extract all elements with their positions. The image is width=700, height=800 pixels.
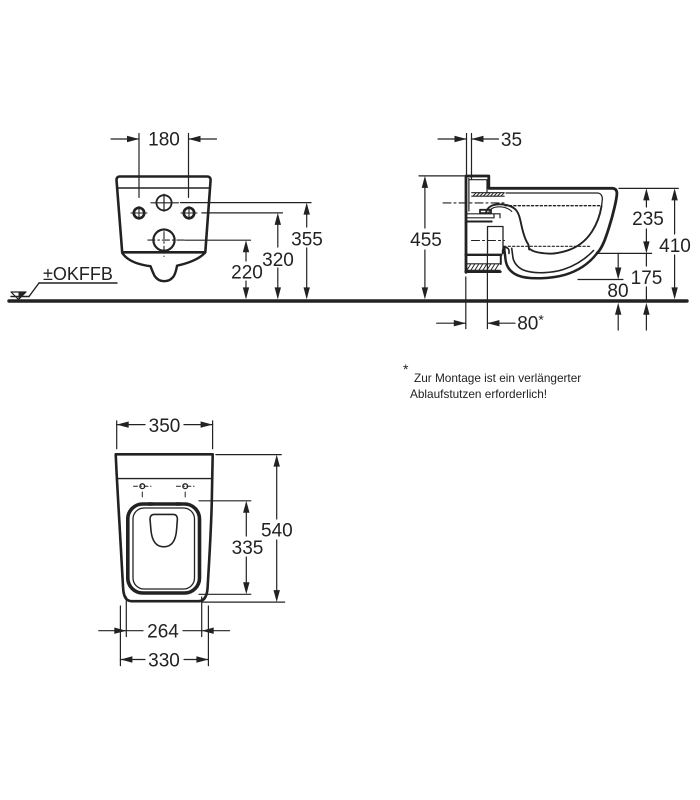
- level symbol OKFFB: [39, 282, 117, 284]
- dimension 175: [645, 253, 647, 266]
- leader 220: [185, 239, 251, 241]
- footnote: [403, 361, 581, 401]
- dimension 335: [245, 513, 247, 536]
- plan mounting mark right: [183, 484, 188, 489]
- lower middle box: [488, 227, 504, 254]
- svg-text:320: 320: [262, 250, 294, 271]
- inlet circle: [156, 195, 171, 210]
- 335 top leader: [199, 500, 251, 502]
- dimension 80*: [437, 322, 466, 324]
- svg-text:350: 350: [149, 416, 181, 437]
- lower waterline dotted: [504, 245, 592, 247]
- weir arc: [486, 204, 516, 212]
- dimension 455: [424, 188, 426, 228]
- dimension 540: [276, 467, 278, 519]
- svg-text:235: 235: [632, 209, 664, 230]
- svg-text:330: 330: [148, 651, 180, 672]
- bowl interior left branch: [516, 210, 530, 250]
- dimension 455 leader: [419, 175, 464, 177]
- top of bowl leader: [619, 187, 678, 189]
- side rear block bottom w/ drain stub: [466, 254, 502, 256]
- dimension 235: [645, 200, 647, 207]
- floor line: [9, 299, 687, 302]
- dimension 350: [116, 421, 118, 449]
- dimension 355: [306, 215, 308, 227]
- U trap inner wall: [512, 248, 594, 272]
- leader 355: [181, 202, 312, 204]
- left mounting hole: [134, 208, 144, 218]
- bottom of bowl leader: [597, 252, 651, 254]
- svg-text:180: 180: [148, 130, 180, 151]
- svg-text:*: *: [403, 361, 409, 377]
- dimension 80 arrow down: [617, 253, 619, 269]
- small arch at trap entry: [503, 248, 509, 254]
- dimension 35: [438, 138, 467, 140]
- svg-text:±OKFFB: ±OKFFB: [43, 264, 113, 284]
- side body outline: [466, 176, 617, 272]
- front body ledge line: [117, 187, 209, 189]
- inner wall lines at rear: [468, 178, 470, 211]
- lower bowl / U trap outer: [504, 247, 597, 278]
- svg-text:Ablaufstutzen erforderlich!: Ablaufstutzen erforderlich!: [410, 387, 547, 401]
- drain height leader: [578, 279, 623, 281]
- svg-text:264: 264: [147, 622, 179, 643]
- svg-text:410: 410: [659, 236, 691, 257]
- dimension 410: [674, 200, 676, 234]
- drain axis centerline: [472, 240, 505, 242]
- svg-text:540: 540: [261, 521, 293, 542]
- flush distributor channel: [472, 193, 505, 197]
- water surface shape: [150, 514, 177, 546]
- dimension 220: [245, 252, 247, 261]
- svg-text:35: 35: [501, 130, 522, 151]
- seat buffer marks: [149, 502, 153, 506]
- bowl rim inner dotted: [505, 205, 602, 207]
- bowl interior right branch: [530, 206, 601, 253]
- right mounting hole: [184, 208, 194, 218]
- 540 top leader: [216, 454, 281, 456]
- svg-text:335: 335: [232, 538, 264, 559]
- svg-text:Zur Montage ist ein verlängert: Zur Montage ist ein verlängerter: [414, 371, 581, 385]
- svg-text:455: 455: [410, 230, 442, 251]
- wall extension lines (35): [466, 134, 468, 176]
- seat ring inner thin: [133, 508, 195, 589]
- fixing detail cluster: [467, 213, 500, 215]
- svg-text:175: 175: [631, 268, 663, 289]
- inlet axis centerline: [443, 202, 507, 204]
- dimension 330: [120, 659, 145, 661]
- dimension 320: [277, 225, 279, 247]
- leader 320: [202, 212, 283, 214]
- front bowl bottom arc with tongue: [122, 253, 205, 281]
- 330 extension lines: [119, 606, 121, 666]
- plan mounting mark left: [140, 484, 145, 489]
- drain circle: [153, 230, 174, 251]
- svg-text:80: 80: [607, 281, 628, 302]
- front body outline: [117, 177, 211, 253]
- seat ring outer thick: [128, 504, 200, 593]
- rim inner lip line: [506, 193, 602, 206]
- svg-text:220: 220: [231, 263, 263, 284]
- 80* extension lines below: [465, 277, 467, 329]
- svg-text:355: 355: [291, 230, 323, 251]
- drain stub thread hatch: [467, 265, 499, 271]
- dimension 264: [99, 630, 127, 632]
- plan body outline: [116, 454, 213, 601]
- 540 bottom leader: [202, 601, 284, 603]
- 335 bottom leader: [199, 593, 251, 595]
- dimension 180: [138, 134, 140, 198]
- 264 extension lines: [125, 597, 127, 637]
- plan ledge line: [116, 478, 212, 480]
